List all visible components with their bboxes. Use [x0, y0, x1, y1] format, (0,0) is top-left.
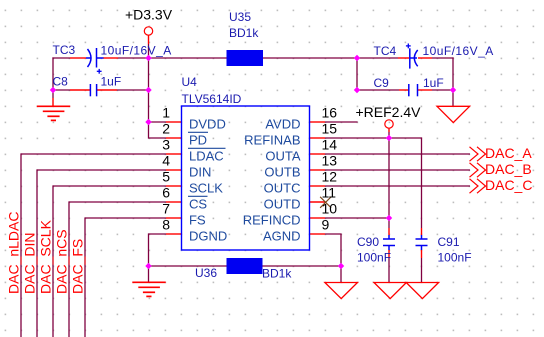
wire vertical right TC4-C9 — [452, 57, 454, 90]
ground triangle AGND — [325, 283, 358, 299]
wire net LDAC vertical — [20, 153, 22, 337]
wire pin14 OUTA — [325, 153, 470, 155]
wire pin13 OUTB — [325, 169, 470, 171]
node junction (389,218) — [386, 215, 392, 221]
wire TC3 right to node — [118, 57, 149, 59]
pin 5 — [166, 185, 182, 187]
svg-text:9: 9 — [322, 217, 330, 233]
pin names right — [243, 117, 301, 244]
ground triangle C90 — [374, 283, 406, 299]
ground triangle TC4/C9 — [437, 106, 470, 122]
svg-text:C90: C90 — [357, 235, 379, 249]
wire net DIN horizontal — [37, 169, 166, 171]
pin C8 left — [70, 89, 90, 91]
wire net FS horizontal — [85, 217, 166, 219]
pin 10 — [309, 217, 325, 219]
pin 7 — [166, 217, 182, 219]
pin 13 — [309, 169, 325, 171]
ground C8 earth — [37, 106, 70, 120]
pin 1 — [166, 121, 182, 123]
svg-text:10uF/16V_A: 10uF/16V_A — [423, 44, 494, 58]
wire U36 to AGND node — [263, 265, 342, 267]
port DAC_C chevrons — [470, 179, 486, 193]
wire REF vertical — [388, 138, 390, 218]
wire AGND to triangle — [340, 266, 342, 282]
op-amp U4 body — [182, 106, 310, 250]
svg-text:2: 2 — [162, 121, 170, 137]
pin C9 right — [418, 89, 432, 91]
wire net SCLK vertical — [52, 185, 54, 337]
svg-text:AVDD: AVDD — [265, 117, 300, 132]
svg-text:DAC_A: DAC_A — [485, 145, 532, 161]
wire DGND horizontal — [149, 233, 167, 235]
svg-text:1: 1 — [162, 105, 170, 121]
node junction (357,90) — [354, 87, 360, 93]
node junction (148.5,266) — [145, 263, 151, 269]
svg-text:1uF: 1uF — [423, 76, 444, 90]
wire net LDAC horizontal — [21, 153, 166, 155]
svg-text:11: 11 — [322, 185, 337, 201]
wire right column to ground triangle — [452, 90, 454, 106]
pin numbers right — [322, 105, 338, 233]
pin C8 gnd stem — [52, 98, 54, 106]
pin names left — [189, 117, 227, 244]
pin C90 top — [388, 228, 390, 235]
pin C9 left — [399, 89, 409, 91]
pin 14 — [309, 153, 325, 155]
wire pin12 OUTC — [325, 185, 470, 187]
svg-text:DAC_nLDAC: DAC_nLDAC — [6, 212, 22, 294]
pin TC3 left — [70, 57, 86, 59]
svg-text:100nF: 100nF — [438, 251, 472, 265]
wire U36 ground stem — [148, 266, 150, 282]
port DAC_A chevrons — [470, 147, 486, 161]
wire node to U35 — [149, 57, 228, 59]
wire REF stem lower — [388, 132, 390, 138]
node junction (341,266) — [338, 263, 344, 269]
wire U35 to TC4 node — [263, 57, 357, 59]
svg-text:OUTA: OUTA — [265, 149, 300, 164]
plus sign TC3 — [97, 69, 102, 74]
node junction (148.5,122) — [145, 119, 151, 125]
wire net SCLK horizontal — [53, 185, 166, 187]
capacitor C9 plates — [409, 84, 418, 96]
pin REF2.4V stem — [388, 129, 390, 133]
pin 8 — [166, 233, 182, 235]
svg-text:16: 16 — [322, 105, 338, 121]
node junction (53,90) — [50, 87, 56, 93]
power circle +D3.3V — [144, 27, 152, 35]
svg-text:TC3: TC3 — [53, 43, 76, 57]
wire C91 to ground — [421, 258, 423, 282]
pin TC4 left — [398, 57, 409, 59]
svg-text:5: 5 — [162, 169, 170, 185]
capacitor TC4 plates — [410, 48, 418, 68]
overbar PD — [188, 131, 208, 133]
pin 9 — [309, 233, 325, 235]
svg-text:BD1k: BD1k — [229, 26, 259, 40]
wire DGND to U36 — [149, 265, 228, 267]
svg-text:OUTD: OUTD — [264, 197, 301, 212]
svg-text:3: 3 — [162, 137, 170, 153]
wire C9 right lead — [432, 89, 453, 91]
pin C8 right — [97, 89, 117, 91]
svg-text:13: 13 — [322, 153, 338, 169]
no-connect X pin 11 — [320, 197, 331, 208]
svg-text:1uF: 1uF — [101, 75, 122, 89]
svg-text:FS: FS — [189, 213, 206, 228]
svg-text:100nF: 100nF — [357, 251, 391, 265]
svg-text:DGND: DGND — [189, 229, 227, 244]
wire left vertical TC3-C8 — [52, 57, 54, 90]
pin C91 bottom — [421, 250, 423, 258]
svg-text:DIN: DIN — [189, 165, 211, 180]
wire pin1 branch — [149, 121, 167, 123]
pin numbers left — [162, 105, 170, 233]
svg-text:DAC_C: DAC_C — [485, 177, 532, 193]
wire pin9 AGND — [325, 233, 342, 235]
svg-text:15: 15 — [322, 121, 338, 137]
pin 12 — [309, 185, 325, 187]
svg-text:BD1k: BD1k — [262, 267, 292, 281]
port DAC_B chevrons — [470, 163, 486, 177]
svg-text:TC4: TC4 — [374, 44, 397, 58]
overbar CS — [188, 195, 208, 197]
svg-text:U35: U35 — [229, 10, 251, 24]
svg-text:SCLK: SCLK — [189, 181, 223, 196]
pin C90 bottom — [388, 250, 390, 258]
wire vertical TC4 to C9 row — [356, 58, 358, 90]
wire net DIN vertical — [36, 169, 38, 337]
capacitor C91 plates — [416, 235, 428, 250]
svg-text:7: 7 — [162, 201, 170, 217]
node junction (389,138) — [386, 135, 392, 141]
wire C8 left lead — [53, 89, 70, 91]
wire REF node to C90 — [388, 218, 390, 228]
wire TC4 node to cap — [357, 57, 398, 59]
wire vertical to pin1 — [148, 90, 150, 139]
pin TC4 right — [418, 57, 432, 59]
svg-text:U36: U36 — [195, 266, 217, 280]
wire pin10 REFINCD — [325, 217, 389, 219]
wire pin16 to AVDD rail — [325, 121, 358, 123]
wire pin15 REFINAB — [325, 137, 422, 139]
svg-text:14: 14 — [322, 137, 338, 153]
svg-text:DAC_DIN: DAC_DIN — [22, 233, 38, 294]
pin 4 — [166, 169, 182, 171]
svg-text:6: 6 — [162, 185, 170, 201]
wire top rail left corner to TC3 — [52, 57, 70, 59]
wire DGND vertical — [148, 233, 150, 266]
svg-text:DVDD: DVDD — [189, 117, 226, 132]
pin C91 top — [421, 228, 423, 235]
wire net FS vertical — [84, 217, 86, 337]
svg-text:CS: CS — [189, 197, 207, 212]
pin 15 — [309, 137, 325, 139]
pin D3.3V stem — [148, 36, 150, 45]
svg-text:OUTC: OUTC — [264, 181, 301, 196]
capacitor C8 plates — [90, 84, 96, 96]
ground triangle C91 — [406, 283, 438, 299]
svg-text:REFINCD: REFINCD — [243, 213, 301, 228]
node junction (148.5,58) — [145, 55, 151, 61]
svg-text:U4: U4 — [182, 75, 198, 89]
pin 16 — [309, 121, 325, 123]
svg-text:DAC_B: DAC_B — [485, 161, 532, 177]
wire REFINAB vertical to C91 — [421, 137, 423, 228]
node junction (357,58) — [354, 55, 360, 61]
overbars — [188, 132, 226, 196]
wire TC4 right lead — [432, 57, 454, 59]
capacitor C90 plates — [383, 235, 395, 250]
svg-text:DAC_SCLK: DAC_SCLK — [38, 219, 54, 294]
svg-text:+REF2.4V: +REF2.4V — [356, 104, 422, 120]
wire net CS vertical — [68, 201, 70, 337]
svg-text:10: 10 — [322, 201, 338, 217]
plus sign TC4 — [406, 44, 411, 49]
svg-text:8: 8 — [162, 217, 170, 233]
pin 3 — [166, 153, 182, 155]
pin TC3 right — [103, 57, 118, 59]
wire C8 right lead — [117, 89, 149, 91]
capacitor TC3 plates — [86, 48, 104, 68]
svg-text:C9: C9 — [374, 76, 390, 90]
wire C9 left lead — [357, 89, 399, 91]
wire D3.3V stem lower — [148, 44, 150, 58]
wire C90 to ground — [388, 258, 390, 282]
svg-text:DAC_FS: DAC_FS — [70, 239, 86, 294]
pin 2 — [166, 137, 182, 139]
wire AGND down — [340, 234, 342, 266]
overbar LDAC — [188, 147, 226, 149]
ferrite bead U35 — [227, 50, 264, 66]
ground U36 earth — [132, 282, 165, 296]
svg-text:12: 12 — [322, 169, 338, 185]
svg-text:+D3.3V: +D3.3V — [125, 7, 173, 23]
ferrite bead U36 — [227, 258, 263, 274]
pin 11 — [309, 201, 326, 203]
svg-text:REFINAB: REFINAB — [244, 133, 300, 148]
wire vertical node to C8 row — [148, 58, 150, 90]
svg-text:PD: PD — [189, 133, 207, 148]
svg-text:C91: C91 — [438, 235, 460, 249]
node junction (453,90) — [450, 87, 456, 93]
wire net CS horizontal — [69, 201, 166, 203]
power circle +REF2.4V — [385, 120, 393, 128]
svg-text:LDAC: LDAC — [189, 149, 224, 164]
node junction (148.5,90) — [145, 87, 151, 93]
svg-text:TLV5614ID: TLV5614ID — [182, 92, 242, 106]
svg-text:AGND: AGND — [263, 229, 301, 244]
svg-text:4: 4 — [162, 153, 170, 169]
wire pin2 branch — [149, 137, 167, 139]
svg-text:C8: C8 — [53, 75, 69, 89]
svg-text:10uF/16V_A: 10uF/16V_A — [101, 44, 172, 58]
svg-text:DAC_nCS: DAC_nCS — [54, 229, 70, 294]
svg-text:OUTB: OUTB — [264, 165, 300, 180]
pin 6 — [166, 201, 182, 203]
wire C8 ground stem — [52, 90, 54, 98]
